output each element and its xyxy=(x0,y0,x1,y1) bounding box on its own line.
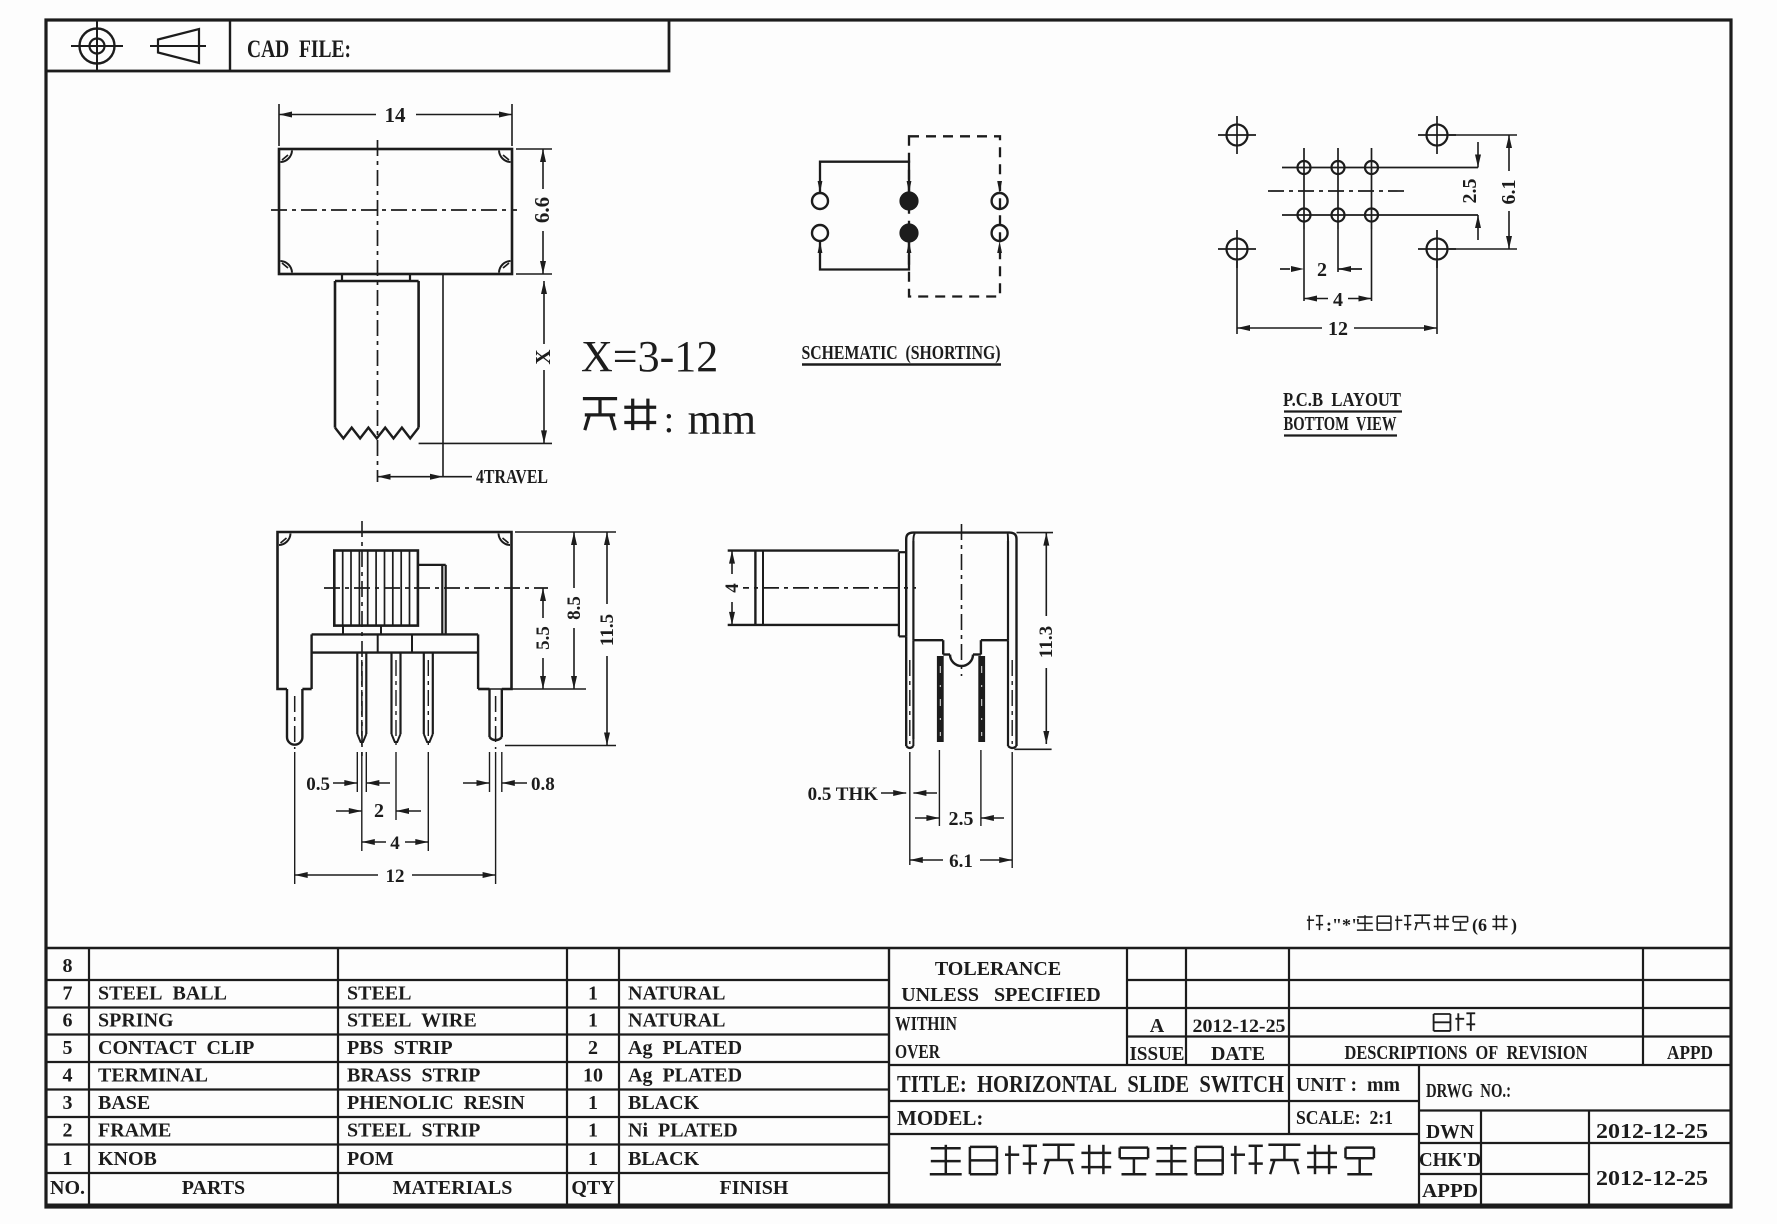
title block grid xyxy=(888,948,890,1205)
right view dim 11.3 xyxy=(1045,533,1047,744)
svg-text:1: 1 xyxy=(588,1010,598,1032)
side view knob stem stubs xyxy=(342,626,344,635)
extension line right of knob xyxy=(442,274,444,477)
svg-text:11.3: 11.3 xyxy=(1036,626,1057,658)
svg-text:SCALE: 2:1: SCALE: 2:1 xyxy=(1296,1107,1393,1129)
knob stem xyxy=(341,274,343,281)
svg-text::: : xyxy=(664,399,675,441)
pcb dim 6.1 extensions xyxy=(1449,134,1517,136)
svg-text:8: 8 xyxy=(63,955,73,977)
svg-text:2: 2 xyxy=(374,800,384,822)
svg-text:SCHEMATIC (SHORTING): SCHEMATIC (SHORTING) xyxy=(802,342,1001,364)
svg-text:NO.: NO. xyxy=(50,1177,85,1199)
dim 5.5 xyxy=(542,588,544,689)
svg-text:SPRING: SPRING xyxy=(98,1010,174,1032)
svg-text:CHK'D: CHK'D xyxy=(1419,1149,1481,1171)
svg-text:DESCRIPTIONS OF REVISION: DESCRIPTIONS OF REVISION xyxy=(1345,1042,1588,1064)
side view terminal pins xyxy=(356,653,358,734)
schematic dashed housing outline xyxy=(909,136,1000,296)
svg-text:STEEL: STEEL xyxy=(347,983,411,1005)
pcb pin hole column 2 xyxy=(1337,148,1339,229)
front view dim 14 xyxy=(279,114,512,116)
schematic right dashed pin arrows xyxy=(997,181,1002,193)
body corner fillet marks xyxy=(281,151,293,163)
right view frame left leg xyxy=(905,636,907,746)
svg-text:1: 1 xyxy=(588,1120,598,1142)
schematic common pin filled xyxy=(900,192,917,209)
svg-text:UNIT : mm: UNIT : mm xyxy=(1296,1074,1400,1096)
svg-text:CONTACT CLIP: CONTACT CLIP xyxy=(98,1037,254,1059)
svg-text:BOTTOM VIEW: BOTTOM VIEW xyxy=(1284,413,1397,435)
svg-text:Ag PLATED: Ag PLATED xyxy=(628,1065,742,1087)
svg-text:NATURAL: NATURAL xyxy=(628,1010,725,1032)
side view vertical centerline xyxy=(361,521,363,756)
svg-text:MATERIALS: MATERIALS xyxy=(393,1177,513,1199)
projection cone symbol xyxy=(158,29,199,63)
svg-text:PBS STRIP: PBS STRIP xyxy=(347,1037,453,1059)
pcb pin hole column 3 xyxy=(1371,148,1373,229)
svg-text:TOLERANCE: TOLERANCE xyxy=(935,958,1061,980)
svg-text:STEEL STRIP: STEEL STRIP xyxy=(347,1120,480,1142)
svg-text:NATURAL: NATURAL xyxy=(628,983,725,1005)
pcb pin hole row line lower xyxy=(1282,214,1478,216)
svg-text:FRAME: FRAME xyxy=(98,1120,171,1142)
pcb dim 6.1 xyxy=(1508,135,1510,249)
first-angle projection target symbol xyxy=(80,29,115,64)
dim 11.5 xyxy=(606,532,608,746)
right view dim 11.3 extensions xyxy=(1017,532,1054,534)
svg-text:DRWG NO.:: DRWG NO.: xyxy=(1426,1080,1511,1102)
svg-text:8.5: 8.5 xyxy=(564,596,585,620)
pcb dim 2.5 xyxy=(1477,142,1479,168)
front view vertical centerline xyxy=(377,140,379,482)
svg-text:4: 4 xyxy=(63,1065,73,1087)
svg-text:PARTS: PARTS xyxy=(182,1177,245,1199)
svg-text:mm: mm xyxy=(688,395,756,444)
side view corner fillet marks xyxy=(279,534,291,546)
svg-text:TERMINAL: TERMINAL xyxy=(98,1065,208,1087)
title strip box CAD FILE xyxy=(46,20,669,71)
svg-text:(6: (6 xyxy=(1472,915,1487,936)
knob shaft with break line xyxy=(334,281,337,428)
svg-text:Ni PLATED: Ni PLATED xyxy=(628,1120,738,1142)
right view body frame xyxy=(906,533,1016,650)
schematic wire top bracket xyxy=(820,162,909,192)
X dim bottom extension xyxy=(419,442,552,444)
svg-text:X: X xyxy=(531,349,555,364)
svg-text:7: 7 xyxy=(63,983,73,1005)
svg-text:P.C.B LAYOUT: P.C.B LAYOUT xyxy=(1283,389,1402,411)
svg-text:12: 12 xyxy=(1328,318,1348,340)
svg-text:4TRAVEL: 4TRAVEL xyxy=(476,466,548,488)
svg-text:BASE: BASE xyxy=(98,1092,150,1114)
right view pin extension lines xyxy=(938,750,940,826)
side view body outline xyxy=(278,532,512,689)
svg-text:3: 3 xyxy=(63,1092,73,1114)
svg-text:KNOB: KNOB xyxy=(98,1148,157,1170)
dim 8.5 extensions xyxy=(481,688,586,690)
svg-text:APPD: APPD xyxy=(1422,1180,1478,1202)
right view knob xyxy=(728,549,899,551)
svg-text:5.5: 5.5 xyxy=(533,626,554,650)
svg-text:6.6: 6.6 xyxy=(530,197,554,223)
svg-text:2012-12-25: 2012-12-25 xyxy=(1193,1016,1286,1037)
dim 12 leg span xyxy=(295,874,496,876)
schematic terminal pin 1 open xyxy=(812,193,828,209)
front view switch body xyxy=(279,149,512,274)
pcb corner hole 4 xyxy=(1427,239,1448,260)
svg-text:2012-12-25: 2012-12-25 xyxy=(1596,1166,1708,1190)
front view dim 14 extension lines xyxy=(278,104,280,146)
dim 4TRAVEL xyxy=(378,476,444,478)
schematic wire bottom bracket xyxy=(820,242,909,270)
svg-text:Ag PLATED: Ag PLATED xyxy=(628,1037,742,1059)
svg-text:2.5: 2.5 xyxy=(949,808,974,830)
pcb dim 4 xyxy=(1304,298,1372,300)
side view knob side step xyxy=(418,564,446,566)
svg-text:5: 5 xyxy=(63,1037,73,1059)
right view base bottom with contact dip xyxy=(913,639,943,641)
svg-text:4: 4 xyxy=(390,833,400,854)
svg-text:2.5: 2.5 xyxy=(1459,179,1481,204)
svg-text:TITLE: HORIZONTAL SLIDE SWI: TITLE: HORIZONTAL SLIDE SWITCH xyxy=(897,1072,1284,1098)
pcb middle centerline xyxy=(1268,190,1408,192)
dim 0.8 leg width xyxy=(463,782,490,784)
schematic terminal pin open right top xyxy=(992,193,1008,209)
pin extension lines below xyxy=(356,752,358,792)
svg-text:APPD: APPD xyxy=(1667,1042,1713,1064)
svg-text:2: 2 xyxy=(588,1037,598,1059)
right view knob end cap xyxy=(898,552,900,636)
side view body bottom shoulders xyxy=(302,688,311,691)
svg-text:1: 1 xyxy=(588,1092,598,1114)
pcb dim 2 xyxy=(1291,266,1304,272)
pcb corner hole top-left xyxy=(1227,125,1248,146)
right view dim 4 xyxy=(731,551,733,625)
note unit mm xyxy=(583,397,617,400)
svg-text:DATE: DATE xyxy=(1211,1043,1265,1065)
svg-text:QTY: QTY xyxy=(571,1177,615,1199)
dim 6.6 extension lines xyxy=(516,148,552,150)
schematic common pin filled lower xyxy=(900,224,917,241)
front view horizontal centerline xyxy=(271,209,517,211)
svg-text:0.5 THK: 0.5 THK xyxy=(808,784,879,805)
right view knob centerline xyxy=(733,587,916,589)
side view ribbed knob xyxy=(334,551,418,626)
svg-text:6.1: 6.1 xyxy=(1498,180,1520,205)
svg-text:UNLESS SPECIFIED: UNLESS SPECIFIED xyxy=(901,984,1101,1006)
svg-text:0.8: 0.8 xyxy=(531,774,555,795)
pcb dim 12 xyxy=(1236,261,1238,334)
svg-text:6.1: 6.1 xyxy=(949,851,973,872)
dim 4 pin span xyxy=(362,841,429,843)
side view right frame leg xyxy=(488,689,490,737)
schematic terminal pin 2 open xyxy=(812,225,828,241)
right view black terminal pin left xyxy=(937,656,944,742)
svg-text:2012-12-25: 2012-12-25 xyxy=(1596,1119,1708,1143)
svg-text:FINISH: FINISH xyxy=(720,1177,789,1199)
svg-text:X=3-12: X=3-12 xyxy=(581,332,718,381)
svg-text:POM: POM xyxy=(347,1148,394,1170)
svg-text:PHENOLIC RESIN: PHENOLIC RESIN xyxy=(347,1092,525,1114)
svg-text:WITHIN: WITHIN xyxy=(895,1013,957,1035)
schematic terminal pin open right bottom xyxy=(992,225,1008,241)
svg-text:MODEL:: MODEL: xyxy=(897,1106,983,1130)
note key dimensions xyxy=(1308,916,1310,930)
svg-text:2: 2 xyxy=(63,1120,73,1142)
dim 2 pin pitch xyxy=(336,810,362,812)
svg-text:1: 1 xyxy=(63,1148,73,1170)
pcb corner hole 3 xyxy=(1227,239,1248,260)
svg-text:): ) xyxy=(1511,915,1517,936)
svg-text:2: 2 xyxy=(1317,259,1327,281)
svg-text:A: A xyxy=(1150,1015,1165,1037)
svg-text:STEEL WIRE: STEEL WIRE xyxy=(347,1010,477,1032)
svg-text:1: 1 xyxy=(588,983,598,1005)
svg-text:11.5: 11.5 xyxy=(597,614,618,646)
pcb pin hole row line upper xyxy=(1282,167,1478,169)
right view frame right leg xyxy=(1015,650,1017,746)
svg-text:4: 4 xyxy=(722,583,743,593)
dim X xyxy=(543,281,545,443)
svg-text:BLACK: BLACK xyxy=(628,1092,700,1114)
svg-text:DWN: DWN xyxy=(1426,1121,1475,1143)
svg-text:OVER: OVER xyxy=(895,1041,940,1063)
svg-text::"*": :"*" xyxy=(1326,915,1361,935)
svg-text:STEEL BALL: STEEL BALL xyxy=(98,983,227,1005)
svg-text:4: 4 xyxy=(1333,289,1343,311)
parts table grid xyxy=(46,947,1731,950)
svg-text:6: 6 xyxy=(63,1010,73,1032)
svg-text:BLACK: BLACK xyxy=(628,1148,700,1170)
side view left frame leg xyxy=(286,689,288,737)
right view vertical centerline xyxy=(961,524,963,676)
svg-text:ISSUE: ISSUE xyxy=(1130,1043,1185,1065)
pcb corner hole 2 xyxy=(1427,125,1448,146)
right view dim 2.5 xyxy=(915,817,939,819)
svg-text:12: 12 xyxy=(386,866,405,887)
company name xyxy=(931,1147,961,1150)
svg-text:14: 14 xyxy=(385,103,407,127)
svg-text:10: 10 xyxy=(583,1065,603,1087)
svg-text:1: 1 xyxy=(588,1148,598,1170)
dim 8.5 xyxy=(573,532,575,689)
side view horizontal centerline xyxy=(324,587,548,589)
svg-text:CAD FILE:: CAD FILE: xyxy=(247,36,351,63)
side view base flange xyxy=(312,633,479,635)
pcb pin hole column 1 xyxy=(1303,148,1305,229)
right view black terminal pin right xyxy=(978,656,985,742)
dim 6.6 xyxy=(542,149,544,274)
svg-text:0.5: 0.5 xyxy=(306,774,330,795)
right view dim 6.1 xyxy=(910,859,1012,861)
dim 11.5 extensions xyxy=(515,531,616,533)
svg-text:BRASS STRIP: BRASS STRIP xyxy=(347,1065,480,1087)
